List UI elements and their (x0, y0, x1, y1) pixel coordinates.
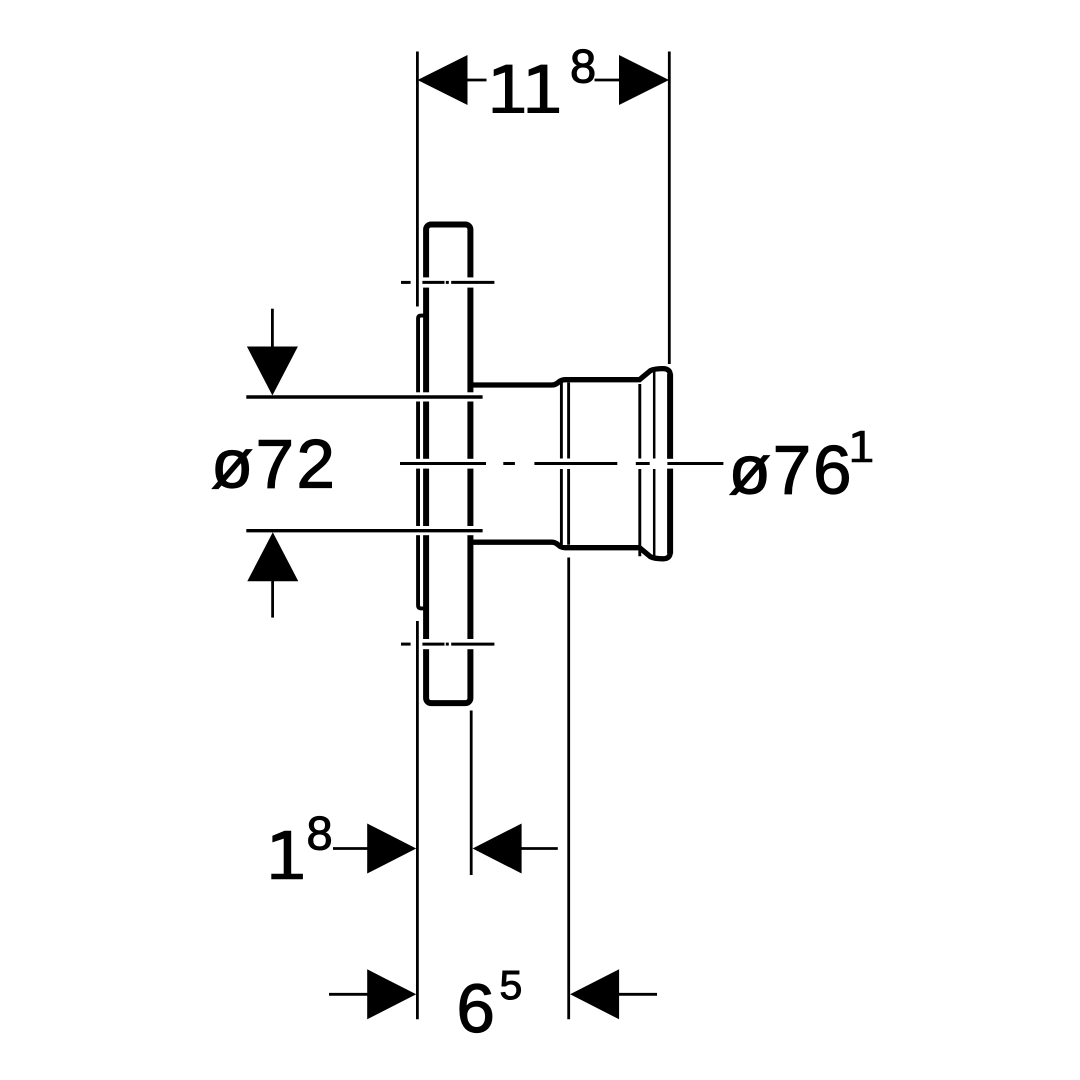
centerline (400, 462, 723, 465)
dim 1.8 left leader (333, 847, 368, 850)
dimension text 1 (271, 831, 303, 879)
gasket sheet (418, 316, 428, 609)
flange (426, 225, 470, 704)
dim 6.5 left leader (329, 993, 369, 996)
dimension 11.8 right leader (595, 79, 621, 82)
extension line flange right face (470, 711, 473, 876)
dia72 down arrow (247, 347, 298, 396)
dia72 upper line (246, 395, 482, 398)
dimension 11.8 left arrow (418, 55, 468, 105)
svg-text:ø72: ø72 (211, 425, 337, 502)
bell cone inner edge (638, 384, 641, 459)
socket entrance inner edge 1 (560, 383, 563, 459)
svg-text:8: 8 (570, 39, 596, 92)
dimension 11.8 left leader (467, 79, 487, 82)
socket entrance inner edge 2 (567, 383, 570, 459)
svg-text:8: 8 (307, 807, 333, 860)
dim 1.8 right-pointing arrow (367, 824, 416, 874)
dimension text 11 (493, 65, 560, 113)
svg-text:5: 5 (500, 962, 523, 1008)
dia72 lower line (246, 529, 482, 532)
white casing gaps at line crossings (414, 277, 675, 649)
extension line right (668, 52, 671, 365)
dim 1.8 right leader (521, 847, 558, 850)
dim 1.8 left-pointing arrow (473, 824, 522, 874)
dim 6.5 left-pointing arrow (570, 969, 619, 1019)
dimension 11.8 right arrow (619, 55, 669, 105)
dim 6.5 right leader (619, 993, 658, 996)
extension line left lower (416, 621, 419, 1019)
extension line socket face (567, 558, 570, 1020)
flange hole centerline top (401, 281, 494, 284)
extension line left upper (416, 52, 419, 307)
dia76 superscript 1 (852, 431, 873, 463)
dia72 up arrow leader (271, 581, 274, 618)
dim 6.5 right-pointing arrow (367, 969, 416, 1019)
bell lip inner edge (653, 370, 656, 459)
dia72 down arrow leader (271, 309, 274, 348)
bell outer right edge (667, 374, 673, 554)
socket outline with bell (469, 369, 670, 559)
dia72 up arrow (247, 532, 298, 581)
flange hole centerline bottom (401, 643, 494, 646)
svg-text:ø76: ø76 (729, 432, 854, 509)
svg-text:6: 6 (457, 970, 495, 1047)
